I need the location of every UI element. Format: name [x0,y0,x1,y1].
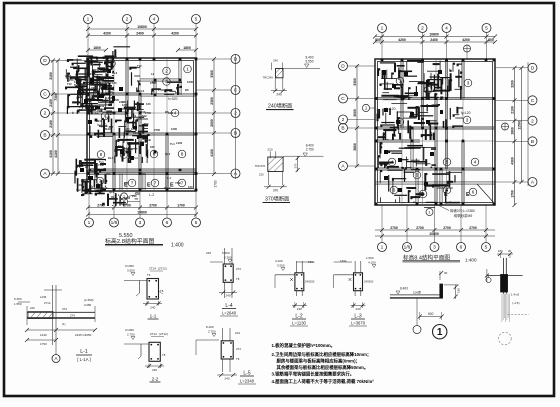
svg-text:[ L-1A ]: [ L-1A ] [77,357,90,362]
svg-text:30: 30 [444,271,448,275]
svg-text:240: 240 [85,165,90,169]
svg-text:L203: L203 [106,96,113,100]
svg-text:0.450: 0.450 [14,297,22,301]
svg-text:2000: 2000 [210,119,214,127]
svg-text:1: 1 [437,327,443,338]
svg-text:1: 1 [186,67,189,72]
svg-text:250: 250 [144,122,149,126]
svg-text:120: 120 [112,81,117,85]
svg-text:10800: 10800 [137,25,147,29]
svg-text:180: 180 [131,127,136,131]
axis bubble 2 [339,115,348,124]
room circle 4 [471,158,479,166]
svg-text:30: 30 [508,249,512,253]
caption 240 wall [266,101,294,109]
svg-text:800: 800 [488,38,494,42]
left plan outer wall [87,58,196,191]
room circle 6 [120,151,128,159]
svg-text:3.550: 3.550 [127,269,135,273]
svg-text:B8: B8 [137,79,141,83]
axis leader line [196,112,231,114]
svg-text:(2.450): (2.450) [84,298,94,302]
axis bubble A [339,162,348,171]
svg-text:1200: 1200 [138,140,144,144]
svg-text:其余楼面梁与板标高比相应楼层标高降50mm。: 其余楼面梁与板标高比相应楼层标高降50mm。 [277,364,369,371]
axis leader line [434,205,436,243]
axis leader line [50,60,88,62]
room circle 7 [178,179,186,187]
svg-text:1:400: 1:400 [465,258,477,263]
svg-text:4: 4 [445,26,448,32]
room circle 7 [96,177,104,185]
svg-text:100厚: 100厚 [413,290,421,295]
level marker circle [502,123,509,130]
svg-text:370: 370 [293,163,297,168]
svg-text:2T14: 2T14 [44,301,51,305]
svg-text:1800: 1800 [93,46,101,50]
svg-text:2100: 2100 [510,106,514,114]
room circle 6 [443,186,451,194]
svg-text:2.卫生间周边梁与板标高比相应楼层标高降10mm；: 2.卫生间周边梁与板标高比相应楼层标高降10mm； [272,351,372,358]
svg-text:T12: T12 [98,100,103,104]
svg-text:KL3: KL3 [112,71,118,75]
svg-text:2400: 2400 [430,38,438,42]
axis leader line [495,140,528,142]
svg-text:2: 2 [427,88,430,93]
svg-text:7: 7 [131,181,134,186]
svg-text:L2: L2 [90,185,94,189]
svg-text:2: 2 [531,118,534,124]
level marker circle [464,45,471,59]
svg-text:C: C [531,98,535,104]
axis bubble C [339,94,348,103]
svg-text:1: 1 [88,220,91,226]
svg-text:2B12: 2B12 [101,186,108,190]
axis bubble connector line [235,54,237,179]
svg-text:5: 5 [195,17,198,23]
svg-text:2700: 2700 [149,203,157,207]
svg-text:T12: T12 [76,188,81,192]
svg-text:2: 2 [165,69,168,74]
svg-text:6: 6 [393,188,396,193]
svg-text:226: 226 [206,251,211,255]
left plan beam annotation clutter [65,47,182,206]
svg-text:YKB: YKB [91,86,97,90]
axis leader line [348,65,376,67]
svg-text:180: 180 [150,145,155,149]
svg-text:3.550: 3.550 [277,264,285,268]
svg-text:7: 7 [154,181,157,186]
right plan beam annotation clutter [377,61,463,204]
svg-text:YKB: YKB [97,109,103,113]
svg-text:2.750: 2.750 [306,147,314,151]
svg-text:YKB: YKB [98,163,104,167]
top dimension line [86,31,198,37]
room circle 4 [101,112,109,120]
diagonal brace line [477,184,494,203]
svg-text:标高8.4结构平面图: 标高8.4结构平面图 [403,253,450,261]
svg-text:2700: 2700 [123,203,131,207]
svg-text:1: 1 [381,245,384,251]
axis bubble C [528,96,537,105]
svg-text:砖墙370,L=2380: 砖墙370,L=2380 [450,208,475,213]
svg-text:3.钢筋端平弯钩锚固长度按图集要求执行。: 3.钢筋端平弯钩锚固长度按图集要求执行。 [272,371,355,378]
svg-text:240: 240 [225,294,230,298]
svg-text:h=120: h=120 [386,107,396,111]
axis leader line [495,181,528,183]
svg-text:7300: 7300 [54,93,58,101]
caption 370 wall [263,194,291,202]
svg-text:2: 2 [44,111,47,117]
room circle 2 [108,60,116,68]
svg-text:L2: L2 [133,114,137,118]
detail L-5 beam section [196,325,241,381]
axis bubble B [231,129,240,138]
room circle 3 [464,79,472,87]
axis bubble 1 [84,15,93,24]
axis leader line [495,120,528,122]
1700 sub dimension [214,180,218,187]
svg-text:2700: 2700 [154,128,160,132]
svg-text:8.400: 8.400 [206,325,214,329]
svg-text:1: 1 [399,79,402,84]
axis leader line [139,191,141,218]
svg-text:6: 6 [166,220,169,226]
svg-text:250: 250 [99,84,104,88]
axis leader line [348,127,376,129]
svg-text:(-4.5): (-4.5) [512,301,519,305]
detail wall footing right [485,249,523,294]
svg-text:TRC370: TRC370 [255,164,266,168]
svg-text:4.100: 4.100 [368,261,376,265]
svg-text:8.400: 8.400 [400,287,408,291]
svg-text:2100: 2100 [49,120,53,128]
svg-text:2.300: 2.300 [224,256,232,260]
axis bubble 2 [123,15,132,24]
svg-text:2T4: 2T4 [70,314,75,318]
svg-text:6: 6 [472,190,475,195]
svg-text:2700: 2700 [443,226,451,230]
svg-text:L-1: L-1 [80,349,88,355]
axis bubble A [231,169,240,178]
left plan internal walls [88,59,196,190]
axis leader line [460,205,462,243]
svg-text:4: 4 [153,17,156,23]
room circle 8 [97,151,105,159]
svg-text:(2T12): (2T12) [159,332,168,336]
svg-text:KL3: KL3 [103,76,109,80]
room circle 3 [463,116,471,124]
right floor plan group [339,24,538,252]
svg-text:3000: 3000 [353,109,357,117]
section marker circle [120,193,140,205]
svg-text:8: 8 [100,152,103,157]
svg-text:370墙断面: 370墙断面 [265,194,289,202]
right plan top overall dim [373,32,497,38]
room circle 4 [388,158,396,166]
axis bubble 1/6 [110,218,119,227]
svg-text:240: 240 [88,76,93,80]
axis bubble 4 [442,24,451,33]
room circle 2 [163,67,171,75]
axis leader line [486,33,488,60]
svg-text:3: 3 [165,79,168,84]
axis leader line [166,191,168,218]
svg-text:1700: 1700 [214,180,218,187]
axis leader line [50,134,88,136]
axis bubble C [231,86,240,95]
svg-text:T8: T8 [236,357,240,361]
svg-text:2700: 2700 [469,226,477,230]
svg-text:6: 6 [123,152,126,157]
svg-text:L203: L203 [176,141,183,145]
room circle 6 [469,188,477,196]
room circle 8 [178,150,186,158]
axis bubble A marker [52,345,60,363]
svg-text:3: 3 [466,118,469,123]
svg-text:D: D [43,58,47,64]
room circle 5 [413,171,421,179]
detail L-2 beam section [275,259,315,311]
caption L-5 [238,371,256,385]
axis leader line [195,191,197,218]
svg-text:6: 6 [153,152,156,157]
left plan columns [87,58,198,192]
svg-text:1.500: 1.500 [366,256,374,260]
room circle 2 [424,86,432,94]
left overall dimension [54,59,60,176]
svg-text:h=120: h=120 [97,123,107,127]
left plan small labels [65,64,193,200]
svg-text:4100: 4100 [54,150,58,158]
svg-text:1800: 1800 [183,46,191,50]
axis bubble D [528,63,537,72]
svg-text:1200: 1200 [122,103,128,107]
axis bubble 3 [430,243,439,252]
svg-text:4100: 4100 [49,150,53,158]
svg-text:1200: 1200 [187,80,193,84]
axis leader line [495,99,528,101]
svg-text:(1): (1) [62,322,65,326]
svg-text:1700: 1700 [177,203,185,207]
svg-text:2B12: 2B12 [93,68,100,72]
axis bubble 1 [85,218,94,227]
svg-text:1: 1 [87,17,90,23]
svg-text:2: 2 [126,17,129,23]
right plan top dims [373,38,497,44]
svg-text:1750: 1750 [40,342,47,346]
right plan left dims [353,64,359,168]
axis bubble D [339,62,348,71]
axis bubble 6 [457,243,466,252]
room circle 6 [150,150,158,158]
svg-text:240: 240 [297,307,302,311]
top sub dimension [176,46,198,52]
detail 370 wall section [255,143,324,192]
svg-text:180: 180 [498,249,503,253]
right plan bottom overall [375,232,495,238]
right plan columns [375,59,496,206]
svg-text:3300: 3300 [210,70,214,78]
caption L-3 [349,314,367,327]
svg-text:4200: 4200 [398,38,406,42]
svg-text:2700: 2700 [416,226,424,230]
svg-text:240: 240 [355,307,360,311]
svg-text:600: 600 [428,312,434,316]
svg-text:240墙断面: 240墙断面 [268,101,292,109]
svg-text:1/6: 1/6 [404,245,411,251]
svg-text:L203: L203 [65,74,72,78]
svg-text:T12: T12 [67,82,72,86]
svg-text:2700: 2700 [93,94,99,98]
svg-text:2-2: 2-2 [152,377,159,382]
axis leader line [50,112,88,114]
axis bubble 2 [41,109,50,118]
svg-text:T8: T8 [162,353,166,357]
axis leader line [485,205,487,243]
svg-text:4.屋面施工上人荷载不大于等于活荷载,荷载 70kN/m²: 4.屋面施工上人荷载不大于等于活荷载,荷载 70kN/m² [272,378,375,385]
svg-text:E: E [466,192,470,198]
svg-text:L-2: L-2 [149,193,154,197]
room circle 7 [128,179,136,187]
top overall dimension [86,25,198,31]
room circle 4 [171,109,179,117]
axis leader line [495,67,528,69]
top sub dimension [86,46,108,52]
svg-text:2: 2 [110,61,113,66]
svg-text:3100: 3100 [49,72,53,80]
svg-text:2T4: 2T4 [236,347,241,351]
axis leader line [153,24,155,59]
svg-text:标高2.8结构平面图: 标高2.8结构平面图 [105,237,155,245]
svg-text:E: E [170,183,174,189]
svg-text:224: 224 [235,331,240,335]
svg-text:C: C [43,92,47,98]
svg-text:220: 220 [268,148,273,152]
svg-text:120: 120 [77,183,82,187]
svg-text:10800: 10800 [137,210,147,214]
svg-text:L203: L203 [81,179,88,183]
svg-text:6: 6 [460,245,463,251]
svg-text:L203: L203 [133,131,140,135]
svg-text:4: 4 [474,160,477,165]
caption L-2 [290,314,308,327]
svg-text:C: C [234,88,238,94]
room circle 5 [443,158,451,166]
axis leader line [348,119,376,121]
svg-text:3200: 3200 [510,80,514,88]
svg-text:220: 220 [259,173,264,177]
svg-text:L-1: L-1 [167,176,172,180]
footing hatch lines [502,294,510,322]
svg-text:KL3: KL3 [108,156,114,160]
svg-text:5.560: 5.560 [222,251,230,255]
axis bubble 5 [192,15,201,24]
svg-text:QL2: QL2 [165,152,171,156]
svg-text:2700: 2700 [145,111,151,115]
room circle 1 [184,65,192,73]
axis bubble 2 [418,24,427,33]
svg-text:2345 C4050: 2345 C4050 [75,333,92,337]
svg-text:4200: 4200 [171,31,179,35]
axis bubble 5 [482,24,491,33]
section flag marker [424,208,435,216]
svg-text:4: 4 [174,111,177,116]
svg-text:L=3670: L=3670 [351,321,366,326]
right plan internal grid lines [376,60,494,204]
svg-text:1.板的混凝土保护层h=100mm。: 1.板的混凝土保护层h=100mm。 [272,342,336,349]
room circle 6 [390,186,398,194]
svg-text:1200: 1200 [171,127,177,131]
dashed circle marker [499,332,512,345]
axis leader line [196,132,231,134]
svg-text:4300: 4300 [510,157,514,165]
svg-text:2700: 2700 [97,203,105,207]
svg-text:1.4m3: 1.4m3 [511,293,520,297]
caption L-1 [76,349,92,362]
svg-text:240260: 240260 [364,280,374,284]
svg-text:D: D [531,66,535,72]
svg-text:T12: T12 [137,64,142,68]
axis bubble C [41,90,50,99]
masonry note [438,205,475,218]
svg-text:A: A [55,356,58,361]
svg-text:E: E [420,192,424,198]
svg-text:800: 800 [375,38,381,42]
svg-text:L=1130: L=1130 [292,321,306,326]
axis bubble connector line [527,62,529,186]
svg-text:1-1: 1-1 [150,314,157,319]
svg-text:KL3: KL3 [139,89,145,93]
right plan right dims [510,66,516,207]
axis leader line [50,173,88,175]
stair direction marks right plan [420,192,470,198]
svg-text:2700: 2700 [390,226,398,230]
svg-text:B8: B8 [185,88,189,92]
svg-text:7: 7 [99,179,102,184]
svg-text:T8: T8 [236,277,240,281]
axis leader line [381,33,383,60]
svg-text:2400: 2400 [136,31,144,35]
bottom dimension line [86,203,198,209]
room height labels [97,97,178,197]
axis leader line [196,89,231,91]
axis leader line [381,205,383,243]
svg-text:B: B [341,126,344,132]
svg-text:3: 3 [399,120,402,125]
room height labels right plan [386,107,471,115]
axis leader line [348,98,376,100]
footing notes [508,293,529,315]
room circle 1 [396,77,404,85]
axis leader line [195,24,197,59]
right plan black blobs [382,70,443,192]
right plan outer wall [375,59,495,205]
svg-text:240: 240 [276,92,282,96]
svg-text:2: 2 [342,117,345,123]
svg-text:4200: 4200 [462,38,470,42]
svg-text:240: 240 [108,90,113,94]
right plan title caption [403,253,477,262]
svg-text:TL1: TL1 [170,142,175,146]
room circle 7 [151,179,159,187]
svg-text:240: 240 [273,59,278,63]
left dimension [49,59,55,176]
detail section 2-2 [124,328,168,372]
svg-text:h=120: h=120 [461,111,471,115]
svg-text:砌筑砂浆M5: 砌筑砂浆M5 [454,213,472,218]
svg-text:3800: 3800 [353,143,357,151]
